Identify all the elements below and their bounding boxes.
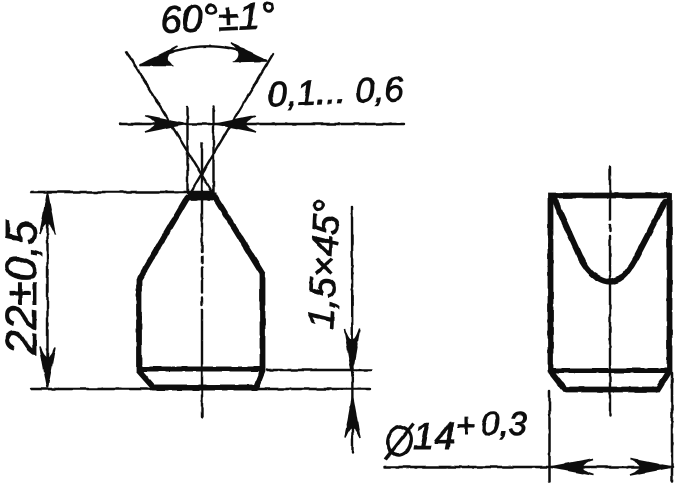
svg-text:14: 14 bbox=[413, 416, 455, 458]
svg-text:1,5×45°: 1,5×45° bbox=[300, 199, 348, 330]
diameter arrow right (points right) bbox=[630, 459, 672, 475]
chamfer dim line bbox=[351, 207, 354, 453]
height dim arrow up bbox=[40, 193, 55, 235]
die cavity curve bbox=[554, 199, 665, 282]
arc arrowhead left bbox=[140, 46, 177, 66]
height dim bottom extension line bbox=[31, 388, 370, 390]
punch tip flat (thick) bbox=[188, 193, 217, 200]
construction line left-face extension bbox=[188, 54, 274, 198]
punch bottom face bbox=[154, 385, 257, 391]
svg-text:0,1... 0,6: 0,1... 0,6 bbox=[267, 70, 405, 115]
tip width extension line left bbox=[186, 107, 188, 193]
height dimension line bbox=[46, 195, 48, 385]
diameter arrow left (points left) bbox=[550, 459, 593, 475]
svg-text:+: + bbox=[456, 407, 475, 444]
punch chamfer shoulder line bbox=[139, 367, 263, 372]
die body outline (right view) bbox=[551, 196, 670, 390]
svg-text:60°±1°: 60°±1° bbox=[160, 0, 276, 42]
chamfer dim arrow up bbox=[345, 396, 360, 438]
diameter dim extension line left bbox=[548, 391, 551, 482]
svg-text:0,3: 0,3 bbox=[481, 405, 528, 442]
die centerline bbox=[609, 167, 611, 416]
punch body outline (left view) bbox=[139, 198, 263, 388]
diameter dimension line bbox=[385, 466, 673, 469]
svg-text:22±0,5: 22±0,5 bbox=[0, 220, 46, 356]
arc arrowhead right bbox=[231, 43, 267, 62]
construction line right-face extension bbox=[127, 52, 216, 198]
punch centerline bbox=[201, 144, 203, 418]
height dim arrow down bbox=[40, 347, 55, 388]
angle dimension arc 60deg bbox=[141, 46, 266, 65]
tip width extension line right bbox=[212, 107, 214, 199]
tip width arrow right (points left) bbox=[216, 116, 256, 132]
chamfer dim upper extension line bbox=[267, 369, 371, 371]
chamfer dim arrow down bbox=[345, 329, 360, 374]
diameter dim extension line right bbox=[671, 373, 674, 482]
tip width dimension line bbox=[120, 123, 404, 125]
tip width arrow left (points right) bbox=[145, 116, 185, 132]
height dim top extension line bbox=[31, 191, 211, 194]
die bottom edge line bbox=[551, 368, 670, 373]
diameter symbol bbox=[385, 424, 414, 460]
